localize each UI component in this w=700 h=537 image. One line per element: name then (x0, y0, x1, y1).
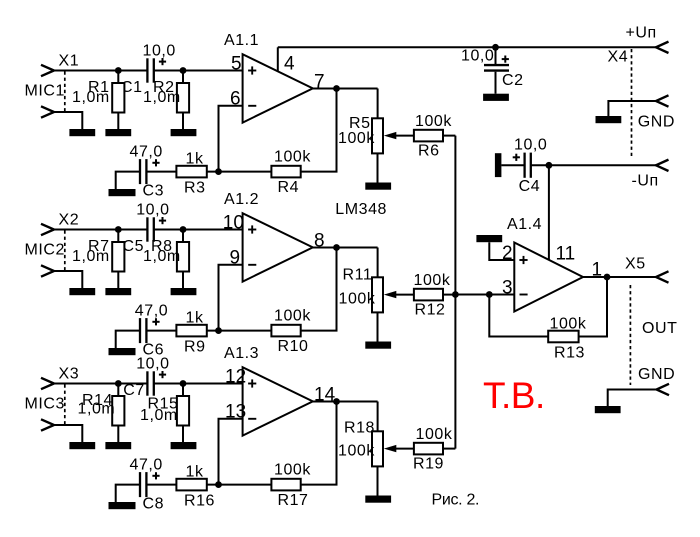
node R2 top junction (180, 67, 187, 74)
wire R12 to summing bus (443, 294, 455, 296)
wire +Un power rail (278, 46, 656, 48)
svg-text:10,0: 10,0 (136, 356, 169, 373)
op-amp A1.1 + input mark (248, 70, 256, 72)
connector X2 pin 2 arrow (41, 265, 54, 276)
node C2 junction (492, 44, 499, 51)
op-amp A1.3 + input mark (248, 383, 256, 385)
svg-text:100k: 100k (415, 113, 452, 130)
svg-text:-Uп: -Uп (632, 173, 659, 190)
svg-text:10,0: 10,0 (461, 48, 494, 65)
wire pin 11 to op-amp A1.4 (548, 165, 550, 260)
potentiometer R5 100k (372, 118, 383, 153)
node feedback junction (486, 291, 493, 298)
svg-text:100k: 100k (414, 272, 451, 289)
node R1 top junction (115, 67, 122, 74)
svg-text:1,0m: 1,0m (143, 89, 181, 106)
wire R13 to output (579, 277, 607, 337)
capacitor C2 10,0 (495, 47, 497, 64)
op-amp A1.3 triangle (243, 367, 313, 435)
connector X3 pin 1 arrow (41, 378, 54, 389)
svg-text:X5: X5 (625, 256, 646, 273)
svg-text:MIC1: MIC1 (25, 82, 65, 99)
wire summing bus (454, 136, 456, 449)
wire output to R18 (377, 402, 379, 432)
node inverting junction (215, 327, 222, 334)
node output junction (333, 85, 340, 92)
svg-text:100k: 100k (416, 426, 453, 443)
svg-text:C3: C3 (143, 183, 165, 200)
capacitor C4 plates (523, 153, 525, 178)
wire X1 to C1 (54, 70, 147, 72)
svg-text:1k: 1k (186, 151, 204, 168)
wire C3 to R3 (146, 171, 176, 173)
connector X4 dashed body line (631, 49, 633, 158)
connector X2 pin 1 arrow (41, 224, 54, 235)
capacitor C1 plates (146, 58, 148, 82)
svg-text:11: 11 (556, 244, 576, 265)
connector X4 +Un pin arrow (656, 42, 669, 53)
potentiometer R18 100k (372, 431, 383, 466)
wire wiper to R12 (396, 294, 414, 296)
ground under R11 (365, 342, 391, 349)
ground under R8 (171, 288, 197, 295)
wire output to R5 (377, 89, 379, 119)
svg-text:Рис. 2.: Рис. 2. (432, 491, 480, 508)
svg-text:100k: 100k (274, 148, 311, 165)
svg-text:47,0: 47,0 (130, 143, 163, 160)
svg-text:1,0m: 1,0m (78, 401, 116, 418)
resistor R14 (117, 384, 119, 397)
svg-text:LM348: LM348 (335, 201, 387, 218)
ground under R18 (365, 496, 391, 503)
wire op-amp A1.1 output (313, 88, 378, 90)
ground under C2 (483, 94, 509, 101)
wire C6 to R9 (146, 330, 176, 332)
resistor R2 (182, 71, 184, 84)
svg-text:1k: 1k (186, 310, 204, 327)
svg-text:47,0: 47,0 (135, 302, 168, 319)
svg-text:1k: 1k (186, 464, 204, 481)
ground at X1 pin 2 (69, 129, 95, 136)
svg-text:R12: R12 (415, 302, 446, 319)
wire X1 pin 2 to ground (54, 112, 82, 129)
connector X5 OUT pin arrow (656, 271, 669, 282)
ground under R14 (105, 442, 131, 449)
svg-text:R11: R11 (343, 267, 373, 284)
wire wiper to R19 (396, 448, 414, 450)
svg-text:1,0m: 1,0m (143, 248, 181, 265)
svg-text:10,0: 10,0 (136, 202, 169, 219)
svg-text:R3: R3 (184, 180, 206, 197)
ground at X3 pin 2 (69, 442, 95, 449)
resistor R6 100k (414, 130, 443, 142)
svg-text:1,0m: 1,0m (72, 248, 110, 265)
wire summing bus to pin 3 (455, 294, 514, 296)
resistor R12 100k (414, 289, 443, 301)
node R14 top junction (115, 380, 122, 387)
ground under R5 (365, 183, 391, 190)
node output junction (333, 398, 340, 405)
ground at C8 (109, 502, 136, 509)
wire C1 to op-amp + input (154, 70, 243, 72)
wire op-amp A1.2 output (313, 247, 378, 249)
wire R11 to ground (377, 312, 379, 341)
op-amp A1.4 + input mark (519, 259, 527, 261)
resistor R17 100k (271, 479, 300, 491)
svg-text:Т.В.: Т.В. (483, 375, 545, 416)
resistor R13 100k (548, 331, 578, 343)
op-amp A1.2 + input mark (248, 229, 256, 231)
svg-text:R17: R17 (278, 492, 309, 509)
svg-text:+Uп: +Uп (626, 25, 657, 42)
wire C3 to ground (116, 172, 140, 189)
op-amp A1.4 triangle (514, 243, 583, 312)
svg-text:R13: R13 (554, 345, 585, 362)
svg-text:10,0: 10,0 (143, 43, 176, 60)
wire pin 4 to +Un rail (277, 47, 279, 71)
wire X2 to C5 (54, 229, 147, 231)
svg-text:C8: C8 (143, 496, 165, 513)
wire R17 to output node (301, 402, 337, 485)
wire X2 pin 2 to ground (54, 271, 82, 288)
connector X1 pin 2 arrow (41, 106, 54, 117)
ground under R1 (105, 129, 131, 136)
resistor R7 (117, 230, 119, 243)
svg-text:A1.1: A1.1 (224, 32, 259, 49)
op-amp A1.4 - input mark (520, 294, 528, 296)
wire ground to pin 2 (489, 242, 514, 260)
svg-text:R16: R16 (184, 493, 215, 510)
capacitor C3 plates (139, 159, 141, 184)
svg-text:10: 10 (223, 212, 244, 233)
wire X3 pin 2 to ground (54, 425, 82, 442)
node inverting junction (215, 168, 222, 175)
connector X1 pin 1 arrow (41, 65, 54, 76)
svg-text:A1.3: A1.3 (224, 345, 259, 362)
wire op-amp A1.1 inverting input (219, 106, 243, 172)
svg-text:X2: X2 (59, 212, 80, 229)
svg-text:R18: R18 (344, 420, 375, 437)
svg-text:12: 12 (225, 366, 246, 387)
svg-text:1,0m: 1,0m (72, 89, 110, 106)
wire R10 to output node (301, 248, 337, 331)
wire op-amp A1.2 inverting input (219, 265, 243, 331)
wire C7 to op-amp + input (154, 383, 243, 385)
connector X4 -Un pin arrow (656, 160, 669, 171)
wire GND to X5 (608, 390, 657, 407)
wire op-amp A1.3 output (313, 401, 378, 403)
resistor R4 100k (271, 166, 300, 178)
connector X1 dashed body line (64, 72, 66, 112)
ground at C4 (495, 153, 502, 177)
op-amp A1.2 - input mark (248, 264, 256, 266)
svg-text:C2: C2 (502, 72, 524, 89)
svg-text:R9: R9 (184, 339, 206, 356)
svg-text:100k: 100k (338, 443, 375, 460)
resistor R19 100k (414, 443, 443, 455)
ground at C3 (109, 189, 136, 196)
node R8 top junction (180, 226, 187, 233)
resistor R10 100k (271, 325, 300, 337)
resistor R15 (182, 384, 184, 397)
capacitor C7 plates (146, 371, 148, 395)
svg-text:100k: 100k (274, 461, 311, 478)
wire R18 to ground (377, 466, 379, 495)
ground at X2 pin 2 (69, 288, 95, 295)
node pin 11 junction (546, 162, 553, 169)
resistor R3 1k (176, 166, 206, 178)
wire output to R11 (377, 248, 379, 278)
ground at A1.4 pin 2 (476, 235, 502, 242)
wire A1.4 output to X5 (583, 276, 656, 278)
wire op-amp A1.3 inverting input (219, 419, 243, 485)
capacitor C8 plates (139, 472, 141, 497)
op-amp A1.1 - input mark (248, 105, 256, 107)
wire GND to X4 (608, 101, 656, 116)
wire wiper to R6 (396, 135, 414, 137)
resistor R16 1k (176, 479, 206, 491)
node summing junction (452, 291, 459, 298)
svg-text:OUT: OUT (642, 320, 677, 337)
svg-text:5: 5 (231, 53, 242, 74)
node R15 top junction (180, 380, 187, 387)
resistor R9 1k (176, 325, 206, 337)
svg-text:C5: C5 (123, 238, 145, 255)
node inverting junction (215, 481, 222, 488)
svg-text:X3: X3 (59, 366, 80, 383)
wire R4 to output node (301, 89, 337, 172)
wire feedback to R13 (489, 295, 548, 337)
svg-text:C7: C7 (123, 382, 145, 399)
wire C5 to op-amp + input (154, 229, 243, 231)
svg-text:100k: 100k (274, 307, 311, 324)
wire C6 to ground (116, 331, 140, 348)
ground at C6 (109, 348, 136, 355)
svg-text:X1: X1 (59, 53, 80, 70)
svg-text:100k: 100k (338, 130, 375, 147)
svg-text:100k: 100k (550, 316, 587, 333)
wire ground to C4 (501, 164, 524, 166)
svg-text:GND: GND (638, 113, 675, 130)
wire R9 to R10 (207, 330, 272, 332)
resistor R1 (117, 71, 119, 84)
svg-text:1,0m: 1,0m (140, 407, 178, 424)
node output junction (604, 274, 611, 281)
svg-text:4: 4 (284, 53, 295, 74)
svg-text:GND: GND (638, 366, 675, 383)
ground under R2 (171, 129, 197, 136)
connector X5 dashed body line (629, 285, 631, 385)
op-amp A1.2 triangle (243, 213, 313, 281)
svg-text:X4: X4 (608, 48, 629, 65)
resistor R8 (182, 230, 184, 243)
node output junction (333, 244, 340, 251)
wire X3 to C7 (54, 383, 147, 385)
wire R3 to R4 (207, 171, 272, 173)
svg-text:R6: R6 (418, 143, 440, 160)
svg-text:R10: R10 (278, 338, 309, 355)
wire R19 to summing bus (443, 448, 455, 450)
wire R16 to R17 (207, 484, 272, 486)
svg-text:A1.4: A1.4 (507, 216, 542, 233)
op-amp A1.1 triangle (243, 54, 313, 122)
wire C8 to R16 (146, 484, 176, 486)
svg-text:10,0: 10,0 (514, 137, 547, 154)
wire R5 to ground (377, 153, 379, 182)
ground at X4 (596, 116, 622, 123)
ground at X5 (595, 406, 621, 413)
wire C4 to -Un pin (531, 164, 656, 166)
wire C8 to ground (116, 485, 140, 502)
node R7 top junction (115, 226, 122, 233)
op-amp A1.3 - input mark (248, 418, 256, 420)
ground under R7 (105, 288, 131, 295)
connector X3 pin 2 arrow (41, 419, 54, 430)
potentiometer R11 100k (372, 277, 383, 312)
wire R6 to summing bus (443, 135, 455, 137)
ground under R15 (171, 442, 197, 449)
capacitor C5 plates (146, 217, 148, 241)
connector X5 GND pin arrow (657, 384, 670, 395)
svg-text:47,0: 47,0 (130, 456, 163, 473)
connector X3 dashed body line (64, 385, 66, 425)
capacitor C6 plates (139, 318, 141, 343)
svg-text:MIC2: MIC2 (25, 241, 65, 258)
connector X2 dashed body line (64, 231, 66, 271)
svg-text:R19: R19 (413, 456, 444, 473)
connector X4 GND pin arrow (656, 95, 669, 106)
svg-text:R4: R4 (278, 179, 300, 196)
svg-text:MIC3: MIC3 (25, 395, 65, 412)
svg-text:A1.2: A1.2 (224, 191, 259, 208)
svg-text:100k: 100k (339, 291, 376, 308)
svg-text:C4: C4 (519, 178, 541, 195)
